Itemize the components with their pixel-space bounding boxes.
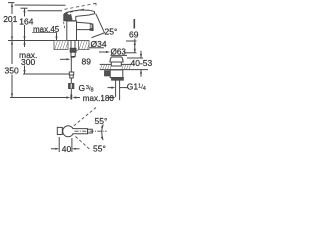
dim 69 (124, 19, 137, 53)
dim 40 plan (51, 137, 80, 152)
svg-text:300: 300 (21, 57, 35, 67)
G3/8 nut (69, 84, 74, 89)
deck hatched band (54, 41, 89, 50)
svg-text:350: 350 (5, 66, 19, 76)
small right arrow at hose (60, 58, 67, 60)
lever handle solid (64, 12, 73, 21)
waste deck top lines (100, 63, 112, 65)
plan swivel dashed up (74, 108, 96, 126)
dimension 201 line (11, 3, 13, 14)
dia63 leader arrow (99, 51, 110, 53)
svg-text:G3/8: G3/8 (79, 83, 94, 93)
plan back block (57, 127, 62, 134)
25 deg leader (92, 14, 105, 38)
svg-text:40-53: 40-53 (131, 58, 153, 68)
waste deck hatch (100, 64, 131, 69)
faucet body (67, 21, 77, 41)
svg-text:25°: 25° (105, 27, 118, 37)
svg-text:164: 164 (19, 16, 33, 26)
svg-text:G11/4: G11/4 (127, 82, 146, 92)
extension line 164 level (21, 7, 28, 9)
waste neck (111, 62, 121, 66)
svg-text:max.180: max.180 (83, 94, 115, 103)
svg-text:40: 40 (62, 144, 72, 154)
dimension 164 line (24, 8, 26, 16)
shank through deck (70, 41, 72, 49)
waste plug cap (110, 57, 123, 62)
extension line top 201 level (8, 2, 15, 4)
350 level line with right arrow at hose (10, 97, 67, 99)
plan swivel dashed down (76, 137, 91, 151)
max180 dim (72, 96, 115, 98)
hose connector mid (69, 72, 73, 75)
tick right of shank (71, 56, 75, 58)
dimension 350 line below deck (11, 41, 13, 65)
svg-text:89: 89 (82, 57, 92, 67)
spout outlet (90, 29, 94, 31)
lever raised dashed (65, 3, 97, 9)
svg-text:201: 201 (3, 14, 17, 24)
plan angle arc arrows (102, 125, 103, 140)
max45 down arrow at deck (56, 33, 58, 40)
dimension 201 arrows (11, 3, 13, 7)
G1 1/4 leader (108, 87, 113, 89)
waste deck bottom line + 40-53 tick (100, 69, 148, 71)
max45 underline (32, 32, 57, 34)
waste tailpipe (115, 80, 117, 97)
plan view (57, 108, 106, 151)
plan centerline dash-dot (75, 130, 107, 132)
waste locknut below deck (105, 71, 111, 76)
plan body circle (63, 126, 74, 137)
waste body (110, 70, 123, 78)
max300 level line (23, 73, 69, 75)
dimension max300 line below deck (24, 41, 26, 48)
plan spout (73, 129, 93, 134)
faucet shank below deck (60, 41, 78, 100)
svg-text:69: 69 (129, 30, 139, 40)
hose line (70, 57, 72, 100)
svg-text:55°: 55° (95, 116, 108, 126)
faucet group (64, 3, 105, 40)
deck top line (8, 40, 89, 42)
dim 40-53 (127, 51, 143, 77)
faucet spout (77, 22, 94, 30)
dimension 164 arrows (23, 8, 25, 12)
svg-text:55°: 55° (93, 144, 106, 154)
